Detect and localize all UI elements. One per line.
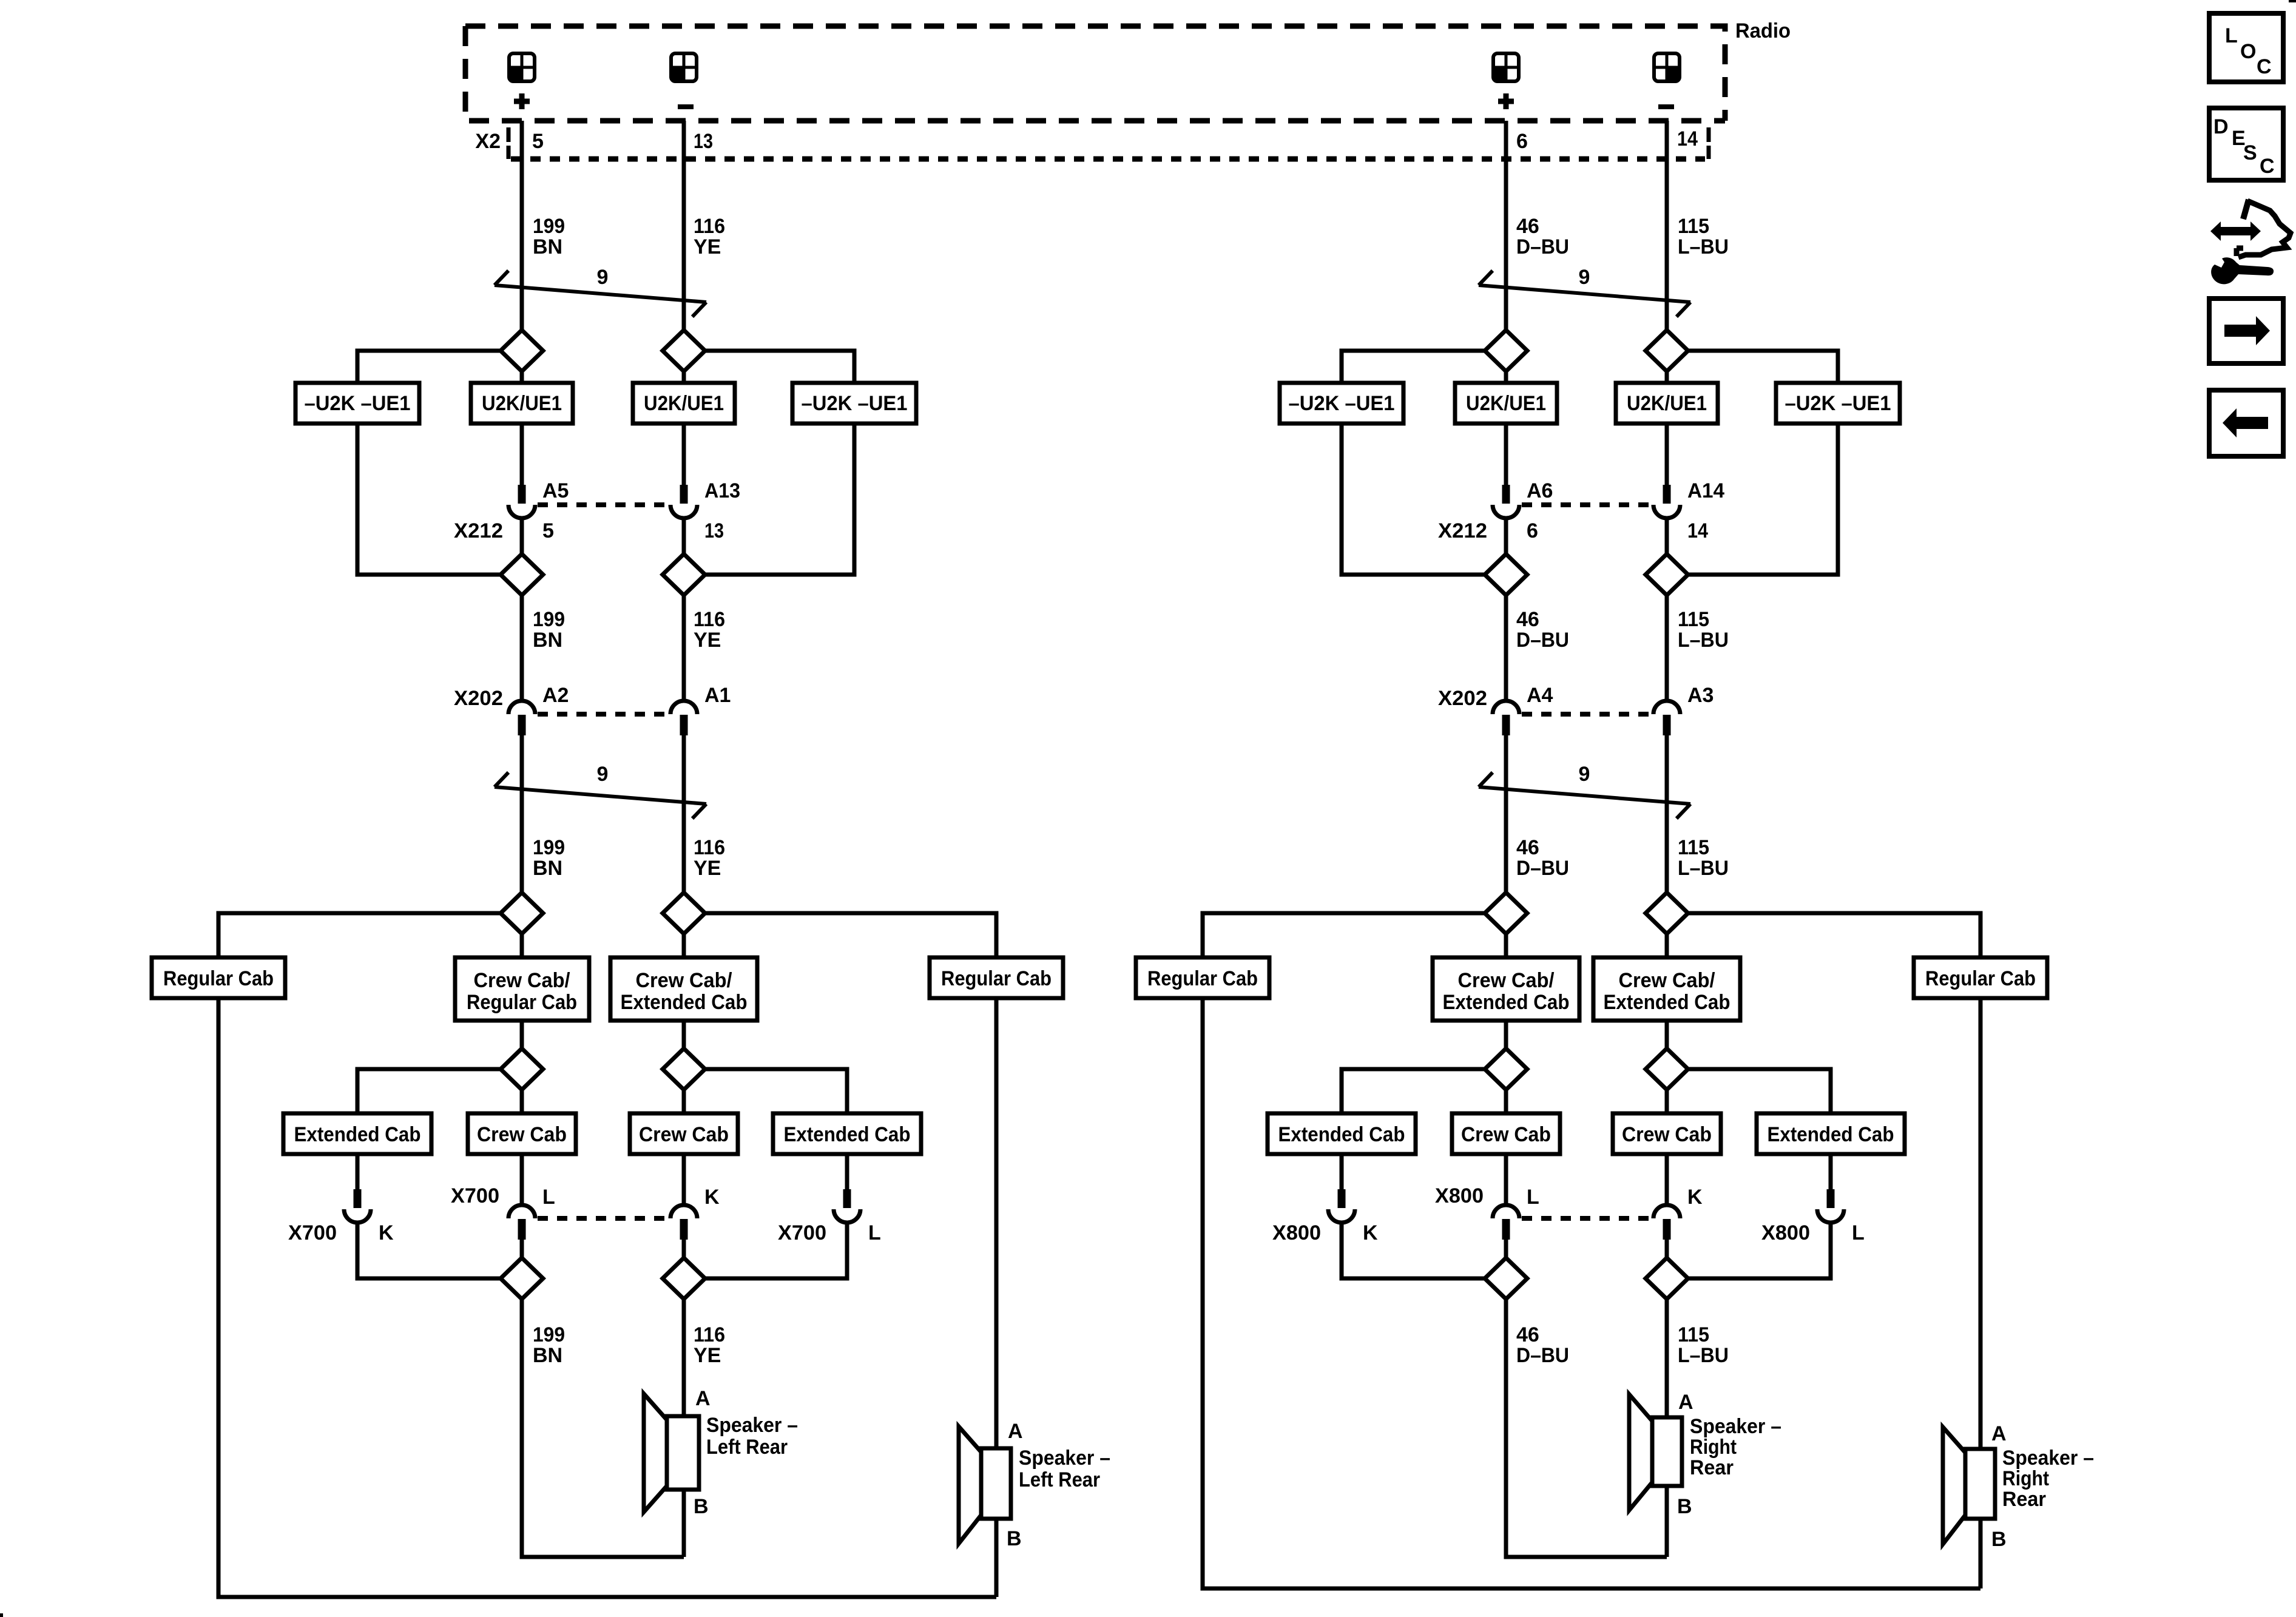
branch wire to Regular Cab (46 D-BU) bbox=[1203, 913, 1485, 957]
svg-text:L–BU: L–BU bbox=[1678, 1344, 1729, 1367]
wire speaker B to bottom bus (right half) bbox=[1979, 1519, 1983, 1588]
wire Extended Cab box to X800 bbox=[1829, 1154, 1833, 1189]
svg-text:–U2K –UE1: –U2K –UE1 bbox=[305, 392, 411, 415]
branch wire to Extended Cab box (116 YE) bbox=[705, 1069, 847, 1113]
option box Crew Cab (46 D-BU) bbox=[1452, 1113, 1560, 1154]
svg-text:Speaker –: Speaker – bbox=[1019, 1447, 1110, 1470]
svg-text:YE: YE bbox=[694, 857, 721, 880]
splice diamond (115 L-BU bottom) bbox=[1646, 1258, 1688, 1299]
connector X700 terminal K (pin and socket, outer) bbox=[344, 1189, 371, 1223]
option box U2K/UE1 (116 YE) bbox=[633, 383, 735, 424]
wire X202 pin to splice bbox=[1665, 735, 1669, 893]
svg-text:115: 115 bbox=[1678, 836, 1709, 859]
svg-text:X800: X800 bbox=[1272, 1221, 1321, 1244]
svg-text:Extended Cab: Extended Cab bbox=[784, 1123, 911, 1146]
bypass wire left -U2K-UE1 to splice bbox=[357, 424, 501, 575]
page corner mark top right bbox=[2289, 0, 2296, 2]
svg-text:Speaker –: Speaker – bbox=[1690, 1415, 1781, 1438]
Radio component dashed outline box bbox=[465, 26, 1725, 121]
wire Regular Cab right vertical to speaker A (right half) bbox=[1979, 998, 1983, 1449]
svg-text:Crew Cab/: Crew Cab/ bbox=[474, 969, 571, 992]
option box U2K/UE1 (46 D-BU) bbox=[1455, 383, 1557, 424]
svg-text:X202: X202 bbox=[1438, 687, 1487, 710]
wire U2K/UE1 box to X212 pin bbox=[520, 424, 524, 485]
svg-text:A14: A14 bbox=[1687, 479, 1724, 502]
splice diamond (199 BN below X212) bbox=[501, 554, 543, 595]
svg-text:A13: A13 bbox=[704, 479, 740, 502]
svg-text:14: 14 bbox=[1677, 127, 1698, 150]
splice diamond (46 D-BU cab split) bbox=[1485, 893, 1527, 934]
svg-text:Extended Cab: Extended Cab bbox=[1604, 991, 1730, 1014]
radio pin symbol (left front, pin 5 +) bbox=[509, 53, 535, 81]
svg-text:X700: X700 bbox=[778, 1221, 826, 1244]
wire Crew Cab box to connector bbox=[1665, 1154, 1669, 1205]
svg-text:14: 14 bbox=[1687, 519, 1708, 542]
connector terminal L (socket and pin, middle) bbox=[1493, 1205, 1519, 1240]
wire Regular Cab right vertical to speaker A bbox=[994, 998, 999, 1448]
svg-text:46: 46 bbox=[1516, 836, 1539, 859]
bypass wire Extended Cab branch to splice (115 L-BU) bbox=[1688, 1223, 1831, 1278]
svg-text:L–BU: L–BU bbox=[1678, 857, 1729, 880]
svg-text:116: 116 bbox=[694, 215, 725, 238]
connector X212 terminal A14 (pin and socket) bbox=[1653, 485, 1680, 518]
branch wire to Regular Cab (116 YE) bbox=[705, 913, 996, 957]
svg-text:B: B bbox=[694, 1495, 709, 1518]
svg-text:116: 116 bbox=[694, 1323, 725, 1346]
option box Extended Cab (199 BN) bbox=[283, 1113, 431, 1154]
svg-text:13: 13 bbox=[694, 130, 713, 153]
option box Crew Cab/Regular Cab bbox=[455, 957, 589, 1021]
splice diamond (115 L-BU cab split) bbox=[1646, 893, 1688, 934]
wire cab box to splice bbox=[682, 1021, 686, 1048]
wire splice to X202 bbox=[520, 595, 524, 701]
branch wire to left -U2K -UE1 box bbox=[357, 351, 501, 383]
option box U2K/UE1 (115 L-BU) bbox=[1616, 383, 1718, 424]
wire Crew Cab box to connector bbox=[682, 1154, 686, 1205]
wire 46 D-BU to speaker B loop bbox=[1506, 1299, 1667, 1557]
svg-text:13: 13 bbox=[704, 519, 724, 542]
svg-text:Crew Cab: Crew Cab bbox=[639, 1123, 729, 1146]
svg-text:115: 115 bbox=[1678, 1323, 1709, 1346]
svg-text:U2K/UE1: U2K/UE1 bbox=[482, 392, 562, 415]
wire cab box to splice bbox=[1665, 1021, 1669, 1048]
svg-text:C: C bbox=[2257, 55, 2272, 78]
bypass wire Extended Cab branch to splice (199 BN) bbox=[357, 1223, 501, 1278]
svg-text:L: L bbox=[542, 1186, 555, 1209]
branch wire to Regular Cab (115 L-BU) bbox=[1688, 913, 1980, 957]
connector X212 terminal A6 (pin and socket) bbox=[1493, 485, 1519, 518]
wire Extended Cab box to X800 bbox=[1340, 1154, 1344, 1189]
wire diamond to U2K/UE1 box bbox=[1665, 371, 1669, 383]
svg-text:D–BU: D–BU bbox=[1516, 235, 1569, 258]
speaker Left Rear (crew/extended cab) bbox=[644, 1394, 699, 1512]
wire 115 L-BU segment 1 bbox=[1665, 121, 1669, 330]
svg-text:–U2K –UE1: –U2K –UE1 bbox=[802, 392, 908, 415]
svg-text:U2K/UE1: U2K/UE1 bbox=[1627, 392, 1707, 415]
svg-text:9: 9 bbox=[1579, 266, 1590, 289]
wire 199 BN segment 1 bbox=[520, 121, 524, 330]
svg-text:D–BU: D–BU bbox=[1516, 1344, 1569, 1367]
svg-text:Right: Right bbox=[1690, 1436, 1737, 1459]
svg-text:Crew Cab: Crew Cab bbox=[1461, 1123, 1551, 1146]
wire connector pin to splice bbox=[520, 1240, 524, 1258]
svg-text:Left Rear: Left Rear bbox=[1019, 1468, 1100, 1491]
wire X202 pin to splice bbox=[1504, 735, 1508, 893]
svg-text:Extended Cab: Extended Cab bbox=[294, 1123, 421, 1146]
splice diamond (199 BN upper) bbox=[501, 330, 543, 371]
bypass wire Extended Cab branch to splice (116 YE) bbox=[705, 1223, 847, 1278]
svg-text:46: 46 bbox=[1516, 215, 1539, 238]
svg-text:–U2K –UE1: –U2K –UE1 bbox=[1785, 392, 1891, 415]
option box Regular Cab (46 D-BU) bbox=[1136, 957, 1269, 998]
wire splice to X202 bbox=[682, 595, 686, 701]
option box Crew Cab (115 L-BU) bbox=[1613, 1113, 1721, 1154]
speaker Right Rear (regular cab) bbox=[1943, 1427, 1995, 1544]
wire X202 pin to splice bbox=[682, 735, 686, 893]
svg-text:X212: X212 bbox=[1438, 519, 1487, 542]
svg-text:K: K bbox=[379, 1221, 394, 1244]
wire 116 YE segment 1 bbox=[682, 121, 686, 330]
wire 115 L-BU to speaker A bbox=[1665, 1299, 1669, 1417]
svg-text:115: 115 bbox=[1678, 215, 1709, 238]
svg-text:199: 199 bbox=[533, 215, 565, 238]
svg-text:U2K/UE1: U2K/UE1 bbox=[1466, 392, 1546, 415]
twisted-pair mark 9 (right pair, top) bbox=[1479, 266, 1690, 317]
svg-text:BN: BN bbox=[533, 857, 562, 880]
svg-text:A3: A3 bbox=[1687, 684, 1714, 707]
svg-text:Rear: Rear bbox=[1690, 1456, 1734, 1479]
wire Regular Cab left vertical to bottom bus bbox=[218, 998, 996, 1597]
svg-text:116: 116 bbox=[694, 608, 725, 631]
svg-text:A: A bbox=[695, 1387, 711, 1410]
splice diamond (199 BN cab split) bbox=[501, 893, 543, 934]
connector X700 mating dashed line bbox=[538, 1216, 668, 1221]
option box Regular Cab (116 YE) bbox=[930, 957, 1063, 998]
connector X2 mating dashed line bbox=[511, 157, 1705, 162]
sidebar back arrow button bbox=[2209, 390, 2283, 456]
option box U2K/UE1 (199 BN) bbox=[471, 383, 573, 424]
branch wire to Regular Cab (199 BN) bbox=[218, 913, 501, 957]
connector X212 mating dashed line (right pair) bbox=[1522, 502, 1651, 507]
svg-text:116: 116 bbox=[694, 836, 725, 859]
option box -U2K -UE1 (right half right) bbox=[1776, 383, 1900, 424]
svg-text:Regular Cab: Regular Cab bbox=[1147, 967, 1258, 990]
svg-text:X800: X800 bbox=[1435, 1184, 1484, 1207]
sidebar DESC button bbox=[2209, 108, 2283, 180]
svg-text:9: 9 bbox=[597, 763, 609, 786]
wire splice to Crew Cab box bbox=[1665, 1090, 1669, 1113]
wire connector pin to splice bbox=[682, 1240, 686, 1258]
wire speaker B down (right) bbox=[1665, 1486, 1669, 1557]
option box -U2K -UE1 (right half left) bbox=[1280, 383, 1403, 424]
svg-text:Crew Cab: Crew Cab bbox=[1622, 1123, 1712, 1146]
svg-text:A: A bbox=[1991, 1422, 2007, 1445]
svg-text:O: O bbox=[2240, 40, 2256, 63]
splice diamond (116 YE below X212) bbox=[663, 554, 705, 595]
connector X202 terminal A2 (socket and pin) bbox=[508, 701, 535, 735]
svg-text:X2: X2 bbox=[475, 130, 501, 153]
wire diamond to U2K/UE1 box bbox=[682, 371, 686, 383]
minus polarity mark pin 13 bbox=[678, 104, 694, 109]
svg-text:B: B bbox=[1007, 1527, 1022, 1550]
splice diamond (116 YE upper) bbox=[663, 330, 705, 371]
plus polarity mark pin 6 bbox=[1498, 93, 1514, 109]
svg-text:Regular Cab: Regular Cab bbox=[1925, 967, 2036, 990]
radio pin symbol (pin 13 −) bbox=[671, 53, 697, 81]
wire cab box to splice bbox=[520, 1021, 524, 1048]
connector X202 mating dashed line (right pair) bbox=[1522, 712, 1651, 717]
svg-text:X800: X800 bbox=[1761, 1221, 1810, 1244]
splice diamond (199 BN lower split) bbox=[501, 1048, 543, 1090]
plus polarity mark pin 5 bbox=[514, 93, 530, 109]
option box Extended Cab (116 YE) bbox=[773, 1113, 921, 1154]
option box -U2K -UE1 (right) bbox=[792, 383, 916, 424]
splice diamond (116 YE bottom) bbox=[663, 1258, 705, 1299]
wire splice to Crew Cab box bbox=[1504, 1090, 1508, 1113]
wire diamond to U2K/UE1 box bbox=[520, 371, 524, 383]
splice diamond (116 YE lower split) bbox=[663, 1048, 705, 1090]
option box Extended Cab (46 D-BU) bbox=[1268, 1113, 1416, 1154]
splice diamond (199 BN bottom) bbox=[501, 1258, 543, 1299]
splice diamond (46 D-BU lower split) bbox=[1485, 1048, 1527, 1090]
wire splice to cab option box bbox=[682, 934, 686, 957]
wire U2K/UE1 box to X212 pin bbox=[1665, 424, 1669, 485]
bypass wire Extended Cab branch to splice (46 D-BU) bbox=[1342, 1223, 1485, 1278]
svg-text:199: 199 bbox=[533, 836, 565, 859]
splice diamond (115 L-BU lower split) bbox=[1646, 1048, 1688, 1090]
svg-text:Left Rear: Left Rear bbox=[706, 1436, 788, 1459]
option box Crew Cab/Extended Cab (115 L-BU) bbox=[1593, 957, 1740, 1021]
svg-text:Crew Cab/: Crew Cab/ bbox=[1619, 969, 1716, 992]
svg-text:Regular Cab: Regular Cab bbox=[941, 967, 1052, 990]
svg-text:K: K bbox=[1687, 1186, 1703, 1209]
svg-text:D–BU: D–BU bbox=[1516, 857, 1569, 880]
radio pin symbol (pin 14 −) bbox=[1654, 53, 1680, 81]
svg-text:A: A bbox=[1678, 1391, 1693, 1414]
svg-text:6: 6 bbox=[1527, 519, 1538, 542]
wire Regular Cab left vertical to bottom bus (right half) bbox=[1203, 998, 1980, 1588]
wire splice to cab option box bbox=[1504, 934, 1508, 957]
page corner mark bottom left bbox=[0, 1613, 3, 1617]
svg-text:YE: YE bbox=[694, 235, 721, 258]
svg-text:L: L bbox=[1527, 1186, 1539, 1209]
wire X212 socket to splice bbox=[1504, 518, 1508, 554]
wire splice to cab option box bbox=[1665, 934, 1669, 957]
option box Extended Cab (115 L-BU) bbox=[1757, 1113, 1905, 1154]
speaker Right Rear (crew/extended cab) bbox=[1629, 1394, 1682, 1510]
splice diamond (46 D-BU upper) bbox=[1485, 330, 1527, 371]
svg-text:Rear: Rear bbox=[2002, 1488, 2046, 1511]
option box Regular Cab (199 BN) bbox=[152, 957, 285, 998]
wire cab box to splice bbox=[1504, 1021, 1508, 1048]
wire splice to X202 bbox=[1504, 595, 1508, 701]
connector X202 terminal A3 (socket and pin) bbox=[1653, 701, 1680, 735]
wire diamond to U2K/UE1 box bbox=[1504, 371, 1508, 383]
wire X212 socket to splice bbox=[520, 518, 524, 554]
svg-text:Crew Cab/: Crew Cab/ bbox=[1458, 969, 1555, 992]
svg-text:Crew Cab/: Crew Cab/ bbox=[636, 969, 733, 992]
radio pin symbol (pin 6 +) bbox=[1493, 53, 1519, 81]
wire Extended Cab box to X700 bbox=[845, 1154, 849, 1189]
connector X212 terminal A5 (pin and socket) bbox=[508, 485, 535, 518]
svg-text:D: D bbox=[2213, 115, 2229, 138]
svg-text:X202: X202 bbox=[454, 687, 503, 710]
svg-text:Extended Cab: Extended Cab bbox=[621, 991, 748, 1014]
svg-text:YE: YE bbox=[694, 1344, 721, 1367]
svg-text:Regular Cab: Regular Cab bbox=[163, 967, 274, 990]
svg-text:9: 9 bbox=[1579, 763, 1590, 786]
svg-text:A6: A6 bbox=[1527, 479, 1553, 502]
svg-text:A4: A4 bbox=[1527, 684, 1553, 707]
svg-text:L: L bbox=[868, 1221, 881, 1244]
splice diamond (115 L-BU below X212) bbox=[1646, 554, 1688, 595]
connector X202 terminal A1 (socket and pin) bbox=[670, 701, 697, 735]
svg-text:5: 5 bbox=[542, 519, 554, 542]
branch wire to Extended Cab box (115 L-BU) bbox=[1688, 1069, 1831, 1113]
wire Crew Cab box to connector bbox=[520, 1154, 524, 1205]
svg-text:BN: BN bbox=[533, 235, 562, 258]
wire X202 pin to splice bbox=[520, 735, 524, 893]
option box -U2K -UE1 (left) bbox=[295, 383, 419, 424]
svg-text:Radio: Radio bbox=[1735, 19, 1791, 42]
minus polarity mark pin 14 bbox=[1658, 104, 1674, 109]
splice diamond (116 YE cab split) bbox=[663, 893, 705, 934]
svg-text:X700: X700 bbox=[288, 1221, 337, 1244]
svg-text:Crew Cab: Crew Cab bbox=[477, 1123, 567, 1146]
svg-text:Extended Cab: Extended Cab bbox=[1278, 1123, 1405, 1146]
connector X202 terminal A4 (socket and pin) bbox=[1493, 701, 1519, 735]
svg-text:115: 115 bbox=[1678, 608, 1709, 631]
wire splice to Crew Cab box bbox=[682, 1090, 686, 1113]
splice diamond (46 D-BU bottom) bbox=[1485, 1258, 1527, 1299]
branch wire to Extended Cab box (199 BN) bbox=[357, 1069, 501, 1113]
splice diamond (46 D-BU below X212) bbox=[1485, 554, 1527, 595]
svg-text:199: 199 bbox=[533, 608, 565, 631]
svg-text:L–BU: L–BU bbox=[1678, 235, 1729, 258]
svg-text:B: B bbox=[1991, 1528, 2007, 1551]
svg-text:Extended Cab: Extended Cab bbox=[1443, 991, 1570, 1014]
connector X700 terminal L (pin and socket, outer) bbox=[834, 1189, 860, 1223]
option box Crew Cab (199 BN) bbox=[468, 1113, 576, 1154]
svg-text:U2K/UE1: U2K/UE1 bbox=[644, 392, 724, 415]
connector X2 right tick bbox=[1707, 127, 1711, 159]
svg-text:A5: A5 bbox=[542, 479, 569, 502]
sidebar diagnostic icon (double arrow, panel outline and wrench) bbox=[2210, 200, 2291, 284]
wire 46 D-BU segment 1 bbox=[1504, 121, 1508, 330]
svg-text:Extended Cab: Extended Cab bbox=[1768, 1123, 1894, 1146]
option box Regular Cab (115 L-BU) bbox=[1914, 957, 2047, 998]
svg-text:A1: A1 bbox=[704, 684, 731, 707]
svg-text:Right: Right bbox=[2002, 1467, 2049, 1490]
connector X800 mating dashed line bbox=[1522, 1216, 1651, 1221]
svg-text:C: C bbox=[2260, 155, 2275, 178]
connector X800 terminal L (pin and socket, outer) bbox=[1817, 1189, 1844, 1223]
svg-text:Speaker –: Speaker – bbox=[706, 1414, 798, 1437]
svg-text:BN: BN bbox=[533, 1344, 562, 1367]
twisted-pair mark 9 (right pair, lower) bbox=[1479, 763, 1690, 819]
twisted-pair mark 9 (left pair, top) bbox=[495, 266, 706, 317]
connector X800 terminal K (pin and socket, outer) bbox=[1328, 1189, 1355, 1223]
svg-text:L: L bbox=[1852, 1221, 1865, 1244]
svg-text:D–BU: D–BU bbox=[1516, 629, 1569, 652]
branch wire to Extended Cab box (46 D-BU) bbox=[1342, 1069, 1485, 1113]
wire U2K/UE1 box to X212 pin bbox=[1504, 424, 1508, 485]
sidebar forward arrow button bbox=[2209, 299, 2283, 363]
wire U2K/UE1 box to X212 pin bbox=[682, 424, 686, 485]
sidebar LOC button bbox=[2209, 13, 2283, 82]
branch wire to right -U2K -UE1 box bbox=[705, 351, 854, 383]
wire connector pin to splice bbox=[1504, 1240, 1508, 1258]
svg-text:–U2K –UE1: –U2K –UE1 bbox=[1289, 392, 1395, 415]
option box Crew Cab/Extended Cab (46 D-BU) bbox=[1433, 957, 1579, 1021]
connector terminal K (socket and pin, middle) bbox=[670, 1205, 697, 1240]
svg-text:L–BU: L–BU bbox=[1678, 629, 1729, 652]
wire splice to Crew Cab box bbox=[520, 1090, 524, 1113]
bypass wire left -U2K-UE1 to splice (right half) bbox=[1342, 424, 1485, 575]
svg-text:X212: X212 bbox=[454, 519, 503, 542]
svg-text:S: S bbox=[2243, 141, 2257, 164]
svg-text:L: L bbox=[2225, 24, 2238, 47]
svg-text:Speaker –: Speaker – bbox=[2002, 1447, 2094, 1470]
wire Crew Cab box to connector bbox=[1504, 1154, 1508, 1205]
twisted-pair mark 9 (left pair, lower) bbox=[495, 763, 706, 819]
connector X212 terminal A13 (pin and socket) bbox=[670, 485, 697, 518]
connector X212 mating dashed line (left pair) bbox=[538, 502, 668, 507]
svg-text:A: A bbox=[1008, 1420, 1023, 1443]
wire connector pin to splice bbox=[1665, 1240, 1669, 1258]
connector terminal L (socket and pin, middle) bbox=[508, 1205, 535, 1240]
svg-text:B: B bbox=[1677, 1495, 1692, 1518]
svg-text:BN: BN bbox=[533, 629, 562, 652]
connector X202 mating dashed line (left pair) bbox=[538, 712, 668, 717]
svg-text:X700: X700 bbox=[451, 1184, 499, 1207]
branch wire to left -U2K -UE1 box (right half) bbox=[1342, 351, 1485, 383]
bypass wire right -U2K-UE1 to splice (right half) bbox=[1688, 424, 1838, 575]
svg-text:YE: YE bbox=[694, 629, 721, 652]
svg-text:9: 9 bbox=[597, 266, 609, 289]
connector X2 left tick bbox=[507, 127, 511, 159]
svg-text:K: K bbox=[704, 1186, 720, 1209]
svg-text:46: 46 bbox=[1516, 1323, 1539, 1346]
wire speaker B to bottom bus bbox=[994, 1519, 999, 1597]
svg-text:Regular Cab: Regular Cab bbox=[467, 991, 577, 1014]
bypass wire right -U2K-UE1 to splice bbox=[705, 424, 854, 575]
branch wire to right -U2K -UE1 box (right half) bbox=[1688, 351, 1838, 383]
svg-text:6: 6 bbox=[1516, 130, 1528, 153]
wire Extended Cab box to X700 bbox=[356, 1154, 360, 1189]
wire 116 YE to speaker A bbox=[682, 1299, 686, 1416]
option box Crew Cab/Extended Cab (116 YE) bbox=[610, 957, 757, 1021]
wire speaker B down bbox=[682, 1490, 686, 1557]
svg-text:46: 46 bbox=[1516, 608, 1539, 631]
wire 199 BN to speaker B loop bbox=[522, 1299, 684, 1557]
wire splice to cab option box bbox=[520, 934, 524, 957]
svg-text:K: K bbox=[1363, 1221, 1378, 1244]
wire X212 socket to splice bbox=[1665, 518, 1669, 554]
connector terminal K (socket and pin, middle) bbox=[1653, 1205, 1680, 1240]
svg-text:A2: A2 bbox=[542, 684, 569, 707]
svg-text:199: 199 bbox=[533, 1323, 565, 1346]
wire splice to X202 bbox=[1665, 595, 1669, 701]
option box Crew Cab (116 YE) bbox=[630, 1113, 738, 1154]
wire X212 socket to splice bbox=[682, 518, 686, 554]
splice diamond (115 L-BU upper) bbox=[1646, 330, 1688, 371]
svg-text:5: 5 bbox=[532, 130, 544, 153]
speaker Left Rear (regular cab) bbox=[959, 1426, 1011, 1544]
